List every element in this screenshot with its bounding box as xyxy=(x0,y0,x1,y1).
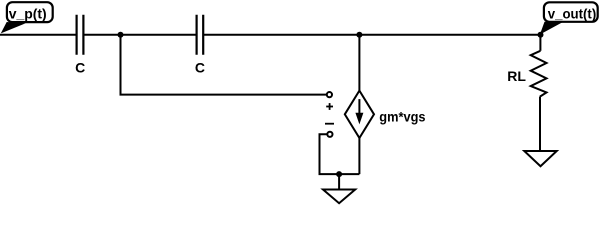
node label v_out(t) callout bubble xyxy=(540,2,598,34)
label + sign xyxy=(326,103,333,110)
terminal + (open circle, vgs plus) xyxy=(327,92,332,97)
wire from top rail down to current source xyxy=(358,35,360,91)
svg-text:v_p(t): v_p(t) xyxy=(9,5,47,21)
wire top segment 2 (C1 to C2) xyxy=(83,34,196,36)
resistor RL xyxy=(531,51,547,97)
ground (right) xyxy=(524,151,556,166)
node junction at v_out xyxy=(538,32,544,38)
svg-text:v_out(t): v_out(t) xyxy=(548,5,597,21)
wire top segment 1 (v_p to C1) xyxy=(0,34,77,36)
wire branch down from C1-C2 node xyxy=(121,35,327,95)
node label v_p(t) callout bubble xyxy=(1,2,53,33)
wire top segment 3 (C2 to RL) xyxy=(203,34,540,36)
current source G1 (VCCS diamond gm*vgs) xyxy=(345,91,374,138)
capacitor C2 xyxy=(197,15,204,55)
node junction on top rail for current source xyxy=(356,32,362,38)
wire from top rail down to RL xyxy=(539,35,541,51)
wire from minus terminal to bottom rail xyxy=(320,134,360,174)
terminal - (open circle, vgs minus) xyxy=(327,132,332,137)
wire from current source to bottom rail xyxy=(358,138,360,174)
wire stem to ground xyxy=(338,174,340,189)
wire from RL down to ground xyxy=(539,97,541,151)
ground (center) xyxy=(323,190,355,204)
svg-text:C: C xyxy=(195,59,205,75)
svg-text:gm*vgs: gm*vgs xyxy=(379,109,425,125)
svg-text:C: C xyxy=(75,59,85,75)
node junction between C1 and C2 xyxy=(118,32,124,38)
node junction on bottom rail xyxy=(336,171,342,177)
capacitor C1 xyxy=(77,15,84,55)
svg-text:RL: RL xyxy=(507,68,526,84)
label - sign xyxy=(325,123,334,125)
